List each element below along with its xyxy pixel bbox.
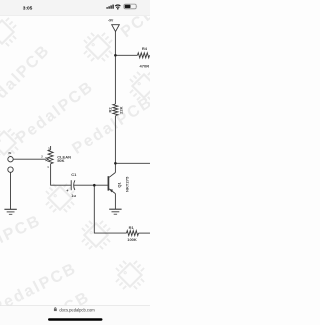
jack IN tip: [8, 157, 13, 162]
lock icon: [54, 307, 56, 310]
svg-text:NKT275: NKT275: [124, 176, 129, 192]
wire emitter down: [114, 194, 116, 210]
wire branch right: [115, 162, 150, 164]
wire sleeve to ground: [10, 172, 12, 209]
svg-text:22K: 22K: [118, 106, 123, 113]
wifi icon: [115, 5, 120, 10]
potentiometer CLEAN 50K: [50, 146, 52, 150]
wire input to pot: [13, 158, 46, 160]
ground left: [4, 209, 16, 214]
wire to R4: [115, 54, 137, 56]
wire node to R1: [94, 185, 126, 233]
svg-text:470R: 470R: [140, 64, 150, 69]
home indicator: [48, 318, 103, 320]
junction dots: [93, 54, 117, 187]
wire C1 to base: [74, 184, 108, 186]
battery: [124, 4, 137, 9]
svg-text:IN: IN: [8, 151, 11, 155]
svg-text:3:05: 3:05: [23, 5, 33, 11]
svg-text:1u: 1u: [71, 193, 76, 198]
node base/R1: [93, 184, 96, 187]
svg-text:C1: C1: [71, 172, 77, 177]
jack IN sleeve: [8, 167, 13, 172]
pot wiper arrow: [46, 158, 49, 161]
resistor R2: [113, 104, 118, 116]
ground right: [109, 209, 121, 214]
svg-text:R1: R1: [129, 225, 135, 230]
svg-text:Q1: Q1: [116, 182, 121, 188]
wire rail mid: [114, 116, 116, 173]
resistor R4: [138, 53, 150, 58]
svg-text:50K: 50K: [57, 158, 64, 163]
signal bars: [106, 5, 113, 9]
browser bottom bar: [0, 306, 150, 325]
capacitor C1: [66, 180, 75, 191]
svg-text:100K: 100K: [127, 237, 137, 242]
status bar: [0, 0, 150, 16]
wire rail top: [114, 32, 116, 104]
svg-text:R2: R2: [108, 107, 113, 113]
watermark: [0, 3, 160, 325]
node rail/R4: [114, 54, 117, 57]
wire pot to C1: [51, 164, 72, 186]
wire R1 right: [139, 232, 151, 234]
node rail/branch: [114, 162, 117, 165]
resistor R1: [127, 231, 139, 236]
svg-text:R4: R4: [142, 46, 148, 51]
supply -9V: [112, 25, 120, 32]
svg-text:-9V: -9V: [108, 19, 114, 23]
transistor Q1: [108, 173, 115, 194]
svg-text:docs.pedalpcb.com: docs.pedalpcb.com: [59, 308, 95, 313]
